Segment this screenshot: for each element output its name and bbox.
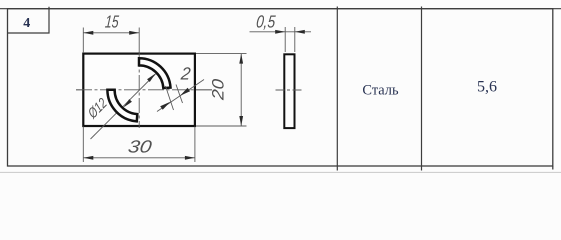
- faint row line below table: [0, 171, 561, 173]
- table column divider 1: [336, 7, 338, 171]
- table top border full width: [0, 8, 561, 10]
- vertical centerline of plate (over fill): [138, 52, 140, 128]
- table outer border: [8, 9, 553, 166]
- svg-text:5,6: 5,6: [477, 79, 497, 96]
- slot width dim line (2): [157, 80, 204, 112]
- dim 20 arrow top: [239, 54, 243, 64]
- dim 20 extension line bottom: [196, 125, 247, 127]
- horizontal centerline of plate: [76, 89, 216, 91]
- dim 15 arrow right: [129, 31, 139, 35]
- dim 30 line: [83, 157, 195, 159]
- dim 15 arrow left: [83, 31, 93, 35]
- phi12 arrow upper (points up-right at inner edge): [147, 74, 155, 82]
- vertical centerline / extension line for 15: [138, 28, 140, 55]
- right border overshoot: [552, 166, 554, 170]
- dim 30 extension line left: [82, 127, 84, 163]
- svg-text:0,5: 0,5: [255, 13, 276, 32]
- side view strip (thickness view): [284, 54, 294, 128]
- arc slot lower left: [107, 90, 137, 122]
- phi12 arrow lower (points down-left at inner edge): [124, 99, 132, 107]
- dim 0,5 line: [250, 31, 312, 33]
- dim 0,5 arrow left outside: [275, 30, 285, 34]
- dim 30 arrow left: [83, 156, 93, 160]
- svg-text:30: 30: [127, 137, 153, 157]
- dimension line phi12 diagonal: [91, 74, 156, 139]
- side view centerline: [276, 89, 304, 91]
- slot width extension tick 2: [176, 85, 183, 104]
- dim 20 line: [240, 54, 242, 126]
- svg-text:Сталь: Сталь: [362, 82, 399, 98]
- slot width arrow lower-left: [160, 102, 170, 110]
- plate outline (front view 30x20): [83, 54, 195, 126]
- dim 30 arrow right: [185, 156, 195, 160]
- arc slot upper right: [139, 58, 171, 88]
- dim 20 extension line top: [196, 53, 247, 55]
- table column divider 2: [421, 7, 423, 171]
- number cell box: [8, 7, 50, 33]
- dim 0,5 arrow right outside: [295, 30, 305, 34]
- dim 0,5 extension line left: [284, 27, 286, 52]
- dim 15 line: [83, 32, 139, 34]
- slot width extension tick 1: [166, 86, 174, 110]
- svg-text:4: 4: [23, 16, 30, 31]
- slot width arrow upper-right: [180, 88, 190, 96]
- dim 0,5 extension line right: [294, 27, 296, 52]
- dim 20 arrow bottom: [239, 116, 243, 126]
- horizontal centerline of plate (over fill): [76, 89, 216, 91]
- dim 30 extension line right: [194, 127, 196, 163]
- svg-text:15: 15: [104, 12, 120, 32]
- svg-text:20: 20: [208, 78, 227, 101]
- dim 15 extension line left: [82, 28, 84, 54]
